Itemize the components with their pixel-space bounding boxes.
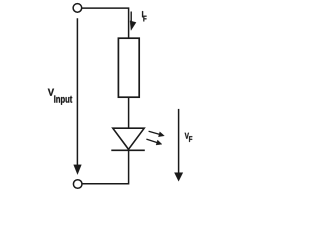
arrow IF [130,12,136,31]
label IF "I" [142,11,143,17]
label IF "F" subscript [143,16,146,22]
wire top: terminal to resistor [82,8,129,38]
label VF "F" subscript [189,136,192,142]
label VInput "V" [48,89,54,96]
LED emission arrow upper [149,131,165,137]
LED D1 triangle [113,128,144,149]
arrow VF [174,109,183,181]
LED cathode bar [111,149,145,151]
wire: resistor to LED [128,97,130,128]
wire left VInput arrow [74,18,82,174]
label VF "V" [185,133,189,139]
label VInput "Input" subscript [54,95,72,104]
wire: LED to bottom terminal [82,151,128,184]
LED emission arrow lower [146,139,162,145]
top terminal [73,4,82,13]
resistor R [118,38,139,97]
bottom terminal [73,180,82,189]
